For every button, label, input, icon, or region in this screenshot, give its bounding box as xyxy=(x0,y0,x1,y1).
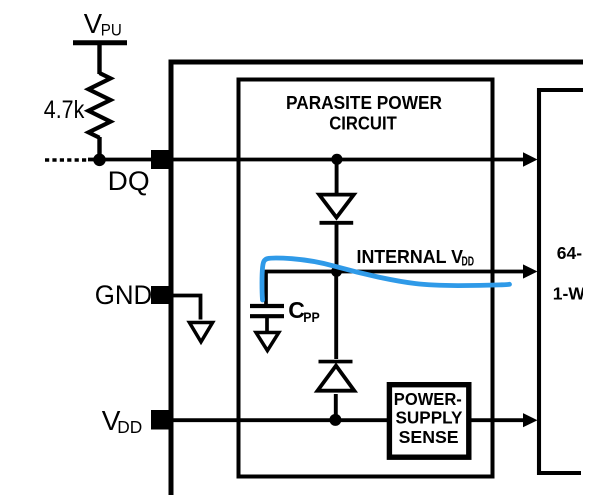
svg-text:PP: PP xyxy=(303,309,320,325)
svg-text:SENSE: SENSE xyxy=(399,427,459,447)
svg-text:GND: GND xyxy=(95,280,153,310)
svg-text:DQ: DQ xyxy=(108,166,150,196)
svg-text:PU: PU xyxy=(101,21,122,40)
svg-text:SUPPLY: SUPPLY xyxy=(396,408,463,428)
svg-text:PARASITE POWER: PARASITE POWER xyxy=(286,92,442,113)
svg-text:4.7k: 4.7k xyxy=(44,96,85,124)
svg-text:POWER-: POWER- xyxy=(394,389,462,409)
svg-text:DD: DD xyxy=(462,253,475,268)
svg-text:INTERNAL V: INTERNAL V xyxy=(357,246,464,267)
svg-text:DD: DD xyxy=(117,417,142,437)
svg-text:CIRCUIT: CIRCUIT xyxy=(329,113,397,134)
